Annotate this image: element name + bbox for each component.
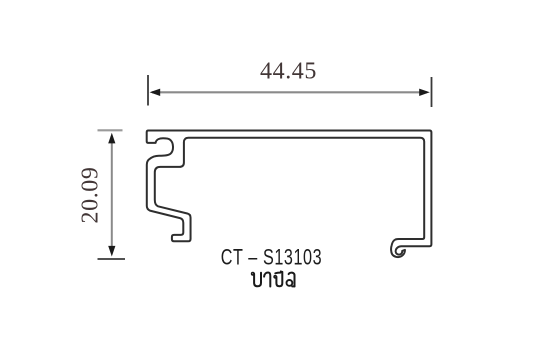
height extension line top: [98, 129, 123, 131]
svg-text:44.45: 44.45: [260, 59, 317, 85]
profile outline: aluminium cap cross-section: [147, 131, 432, 258]
height dimension line: [111, 136, 113, 253]
width extension line right: [431, 77, 433, 107]
width arrowhead right: [419, 89, 430, 96]
po pla: [274, 276, 276, 278]
height arrowhead bottom: [108, 246, 115, 257]
svg-text:CT – S13103: CT – S13103: [221, 245, 322, 270]
sara i: [275, 271, 281, 273]
do dek: [289, 273, 295, 287]
part name label (Thai) drawn as paths: [252, 271, 295, 286]
fo fa: [252, 273, 254, 275]
width extension line left: [147, 75, 149, 106]
height arrowhead top: [108, 133, 115, 144]
svg-text:20.09: 20.09: [78, 167, 104, 224]
sara aa: [264, 272, 270, 286]
width dimension line: [152, 91, 427, 93]
width arrowhead left: [150, 89, 161, 96]
height extension line bottom: [98, 258, 126, 260]
